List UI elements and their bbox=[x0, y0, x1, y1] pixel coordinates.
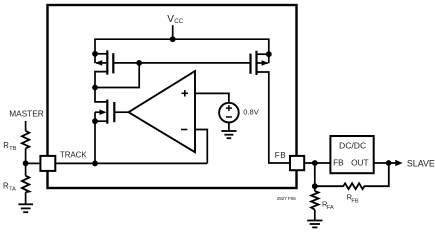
wire RTB to node bbox=[25, 148, 27, 163]
svg-text:CC: CC bbox=[174, 18, 183, 25]
svg-text:TB: TB bbox=[9, 146, 16, 152]
svg-text:FB: FB bbox=[333, 158, 344, 168]
node VCC junction bbox=[170, 36, 176, 42]
wire FB node down bbox=[314, 163, 316, 191]
node mirror junction bbox=[92, 85, 98, 91]
resistor RFA bbox=[311, 191, 318, 210]
node gate tap bbox=[136, 60, 142, 66]
svg-text:0.8V: 0.8V bbox=[243, 108, 260, 117]
ground G3 bbox=[307, 221, 322, 228]
svg-text:OUT: OUT bbox=[351, 158, 369, 168]
op-amp plus input mark bbox=[182, 90, 188, 96]
node M3 source dot bbox=[92, 118, 98, 124]
transistor M1 (PMOS, diode-connected) bbox=[95, 50, 113, 87]
wire minus input feedback bbox=[195, 130, 207, 164]
svg-text:MASTER: MASTER bbox=[9, 109, 44, 119]
op-amp A1 (pointing left) bbox=[129, 71, 196, 152]
node TRACK junction bbox=[92, 161, 98, 167]
svg-text:FA: FA bbox=[327, 205, 334, 211]
svg-text:DC/DC: DC/DC bbox=[339, 141, 366, 151]
label RFA bbox=[322, 200, 334, 211]
transistor M3 (NMOS) bbox=[95, 88, 114, 164]
pin TRACK bbox=[40, 156, 55, 171]
node divider junction bbox=[23, 160, 29, 166]
node FB junction bbox=[312, 160, 318, 166]
resistor RTA bbox=[22, 176, 29, 193]
node M1 source dot bbox=[92, 51, 98, 57]
resistor RTB bbox=[22, 131, 29, 149]
VCC label bbox=[167, 14, 183, 25]
resistor RFB bbox=[315, 163, 389, 189]
IC boundary box U1 bbox=[48, 5, 297, 188]
svg-text:TRACK: TRACK bbox=[60, 150, 87, 159]
svg-text:R: R bbox=[3, 141, 9, 150]
wire node to TRACK pin bbox=[26, 162, 41, 164]
wire MASTER lead bbox=[25, 121, 27, 131]
arrowhead SLAVE bbox=[395, 160, 402, 167]
wire M2 drain to FB bbox=[257, 72, 290, 163]
node OUT junction bbox=[386, 160, 392, 166]
svg-text:FB: FB bbox=[275, 151, 286, 160]
svg-text:FB: FB bbox=[351, 199, 358, 205]
voltage source V1 0.8V bbox=[219, 103, 239, 123]
wire RFA to ground bbox=[314, 210, 316, 220]
ground G1 bbox=[18, 204, 33, 212]
svg-text:2927 F06: 2927 F06 bbox=[277, 196, 297, 202]
wire top supply rail bbox=[95, 39, 269, 54]
wire RTA lead bbox=[25, 163, 27, 175]
wire reference to ground bbox=[228, 122, 230, 130]
wire TRACK net bbox=[55, 162, 207, 164]
wire FB to DC/DC bbox=[304, 162, 330, 164]
wire M3 gate lead bbox=[114, 111, 128, 113]
wire VCC lead bbox=[172, 25, 174, 40]
wire gate rail M1-M2 bbox=[113, 62, 250, 64]
block DC/DC converter bbox=[330, 136, 373, 173]
wire diode connection bbox=[95, 63, 139, 88]
pin FB bbox=[290, 156, 304, 170]
svg-text:R: R bbox=[3, 182, 9, 191]
svg-text:SLAVE: SLAVE bbox=[407, 159, 435, 169]
label RTB bbox=[3, 141, 17, 152]
wire RTA to ground bbox=[25, 192, 27, 204]
transistor M2 (PMOS, output) bbox=[251, 51, 269, 75]
wire OUT to SLAVE bbox=[374, 162, 396, 164]
ground G2 bbox=[221, 131, 236, 138]
svg-text:TA: TA bbox=[9, 187, 16, 193]
op-amp minus input mark bbox=[181, 129, 187, 131]
label RTA bbox=[3, 182, 16, 193]
wire plus input to reference bbox=[195, 93, 229, 102]
node M2 source dot bbox=[266, 51, 272, 57]
label RFB bbox=[347, 193, 359, 205]
node RFB junction bbox=[312, 183, 318, 189]
